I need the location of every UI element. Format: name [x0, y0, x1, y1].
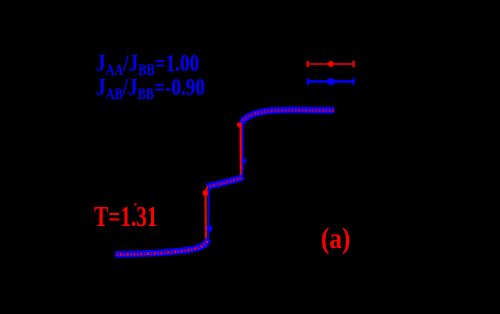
stray red dot above T=1.31	[134, 203, 136, 205]
label JAB/JBB=-0.90	[96, 76, 205, 100]
blue dataset square-marker band branch3	[242, 110, 335, 124]
label (a)	[321, 224, 350, 254]
blue square marker mid lower jump	[207, 226, 212, 232]
legend red right cap	[353, 61, 355, 67]
red jump line upper transition	[239, 128, 242, 178]
legend red circle marker	[328, 61, 334, 67]
legend blue left cap	[307, 79, 310, 85]
legend blue square marker	[328, 79, 334, 85]
label T=1.31	[94, 204, 158, 232]
legend red errorbar line	[308, 63, 354, 65]
red dataset circle markers showing through branch2	[207, 177, 242, 187]
legend blue errorbar line	[308, 80, 354, 82]
blue dataset square-marker band branch1	[115, 239, 208, 254]
label JAA/JBB=1.00	[96, 52, 199, 76]
blue square marker mid upper jump	[242, 159, 247, 164]
blue dataset connecting line branch2	[208, 177, 243, 187]
red dataset circle markers showing through branch1	[116, 241, 206, 255]
red circle marker at lower transition	[202, 190, 208, 196]
blue jump line upper transition	[241, 122, 244, 178]
blue jump line lower transition	[207, 187, 210, 241]
red jump line lower-to-middle connector	[206, 187, 208, 193]
blue dataset connecting line branch1	[115, 239, 208, 254]
blue dataset connecting line branch3	[242, 110, 335, 124]
red circle marker at upper transition	[237, 122, 243, 128]
red jump connector to upper branch	[240, 121, 242, 123]
blue dataset square-marker band branch2	[208, 177, 243, 187]
red dataset circle markers showing through branch3	[242, 110, 335, 124]
legend blue right cap	[352, 79, 355, 85]
legend red left cap	[307, 61, 309, 67]
red jump line lower transition	[205, 196, 207, 241]
